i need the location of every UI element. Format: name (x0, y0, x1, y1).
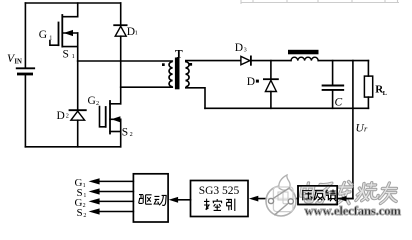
svg-text:1: 1 (135, 30, 138, 37)
wire: S2 source down to rail (120, 119, 122, 147)
wire: secondary top lead to D3 (186, 61, 241, 62)
wire: left vertical (battery bottom side) (24, 75, 26, 147)
svg-text:SG3 525: SG3 525 (199, 185, 240, 197)
feedback box text 压反馈 (302, 190, 336, 202)
wire: driver output line S2 (99, 211, 133, 213)
wire: feedback box to SG3525 (258, 198, 298, 200)
feedback box (298, 186, 337, 205)
watermark logo swoosh (274, 203, 288, 215)
wire: D3 to inductor (251, 60, 291, 62)
transformer primary dot (162, 63, 165, 66)
wire: left vertical (battery top side) (24, 3, 26, 68)
diode D1: triangle (115, 26, 126, 36)
wire: secondary bottom lead down and right (186, 88, 205, 109)
svg-text:1: 1 (83, 193, 86, 199)
inductor core bar (288, 50, 319, 55)
wire: D4 bottom lead (270, 92, 272, 109)
transformer T (169, 62, 189, 87)
svg-text:2: 2 (83, 203, 86, 209)
wire: D1 down through crossing to primary bottom junction (120, 36, 122, 104)
watermark logo leaf (279, 175, 290, 190)
diode D4: triangle (265, 80, 276, 91)
arrow to G1 (89, 178, 100, 184)
svg-text:G: G (88, 95, 96, 107)
wire: driver output line S1 (99, 191, 133, 193)
battery VIN: short thick plate (18, 73, 31, 76)
transistor S1 (upper MOSFET): drain lead (62, 3, 77, 17)
transistor S2: gate bar (105, 107, 107, 127)
wire: Ur sense line (352, 61, 354, 199)
arrow to S2 (89, 208, 100, 214)
svg-text:G: G (39, 29, 47, 41)
svg-text:2: 2 (130, 131, 133, 138)
capacitor C: top plate (323, 85, 344, 87)
diode D1: cathode bar (114, 24, 126, 26)
main circuit (17, 3, 121, 147)
capacitor C: bottom lead (332, 91, 334, 109)
diode D2: triangle (71, 111, 85, 120)
svg-text:3: 3 (244, 47, 247, 54)
capacitor C: bottom plate (323, 89, 344, 91)
wire: SG3525 to driver (178, 199, 191, 201)
svg-text:C: C (335, 97, 343, 109)
svg-text:2: 2 (83, 213, 86, 219)
wire: D2 bottom to rail (77, 120, 79, 147)
transistor S1: body lead (62, 32, 77, 34)
svg-text:1: 1 (83, 183, 86, 189)
transformer core (175, 58, 180, 90)
wire: inductor to load corner (318, 60, 368, 62)
transistor S2: gate lead (100, 107, 106, 127)
driver text 驱动 (139, 195, 167, 206)
diode D4: top lead (270, 61, 272, 79)
wire: node line S1 to transformer primary top (78, 60, 173, 62)
watermark ruler ticks top right (241, 0, 399, 4)
load RL: bottom lead (367, 97, 369, 108)
svg-text:www.elecfans.com: www.elecfans.com (305, 204, 402, 218)
diode D2: cathode bar (70, 109, 86, 111)
transistor S1: source lead (62, 46, 77, 48)
svg-text:1: 1 (49, 35, 52, 42)
transformer secondary winding (186, 62, 189, 87)
capacitor C: top lead (332, 61, 334, 85)
feedback elbow arrow redraw (339, 198, 353, 200)
arrow to S1 (89, 188, 100, 194)
diode D3: triangle (241, 56, 250, 64)
transistor S1: channel bar (61, 15, 63, 47)
inductor winding (291, 57, 318, 60)
svg-text:2: 2 (66, 113, 69, 120)
wire: driver output line G2 (99, 200, 133, 202)
load RL: resistor box (364, 76, 372, 97)
watermark logo circle (266, 175, 296, 216)
battery VIN: long plate (17, 67, 35, 69)
diode D4: cathode bar (264, 78, 278, 80)
svg-text:S: S (77, 207, 83, 219)
SG3525 text 控制 (204, 199, 235, 211)
transformer secondary dot (189, 63, 192, 66)
watermark badge (273, 187, 293, 212)
svg-text:T: T (175, 49, 183, 61)
svg-text:D: D (247, 76, 255, 88)
svg-text:IN: IN (14, 59, 22, 66)
svg-text:S: S (63, 49, 69, 61)
transistor S2 (lower MOSFET): drain lead (110, 103, 121, 105)
arrow to G2 (89, 198, 100, 204)
wire: top rail (25, 2, 120, 4)
arrow into SG3525 box (249, 196, 258, 202)
svg-text:S: S (122, 127, 128, 139)
svg-text:D: D (57, 110, 65, 122)
driver box (133, 174, 168, 222)
transformer primary winding (169, 62, 172, 87)
transistor S1: gate lead (50, 41, 59, 46)
transistor S2: channel bar (109, 101, 111, 134)
wire: bottom-left rail (25, 146, 120, 148)
wire: output bottom rail (205, 107, 368, 109)
SG3525 control box (191, 181, 249, 217)
arrow into driver box (169, 197, 178, 203)
diode D1 vertical wire from top rail (120, 3, 122, 25)
watermark logo node circles (268, 198, 273, 203)
svg-text:1: 1 (72, 53, 75, 60)
transistor S1: gate bar (58, 23, 60, 46)
transistor S2: arrow (111, 116, 120, 122)
svg-text:D: D (235, 42, 243, 54)
svg-text:L: L (383, 90, 388, 97)
feedback box redraw on top of watermark (298, 186, 337, 205)
transistor S2: body lead (110, 118, 121, 120)
diode D2: wire through (77, 61, 79, 110)
transistor S2: source lead (110, 131, 121, 133)
diode D3: cathode bar (250, 56, 252, 64)
wire: driver output line G1 (99, 180, 133, 182)
wire: primary bottom lead (121, 86, 173, 88)
wire: S1 source vertical down to node (77, 33, 79, 61)
watermark big text 电子发烧友 (300, 182, 400, 205)
svg-text:2: 2 (96, 100, 99, 107)
feedback box text 压反馈 (302, 190, 336, 202)
load RL: top lead (367, 61, 369, 77)
transistor S1: arrow (64, 30, 73, 36)
wire: feedback elbow to box (339, 198, 353, 200)
arrow into feedback box (338, 196, 347, 201)
